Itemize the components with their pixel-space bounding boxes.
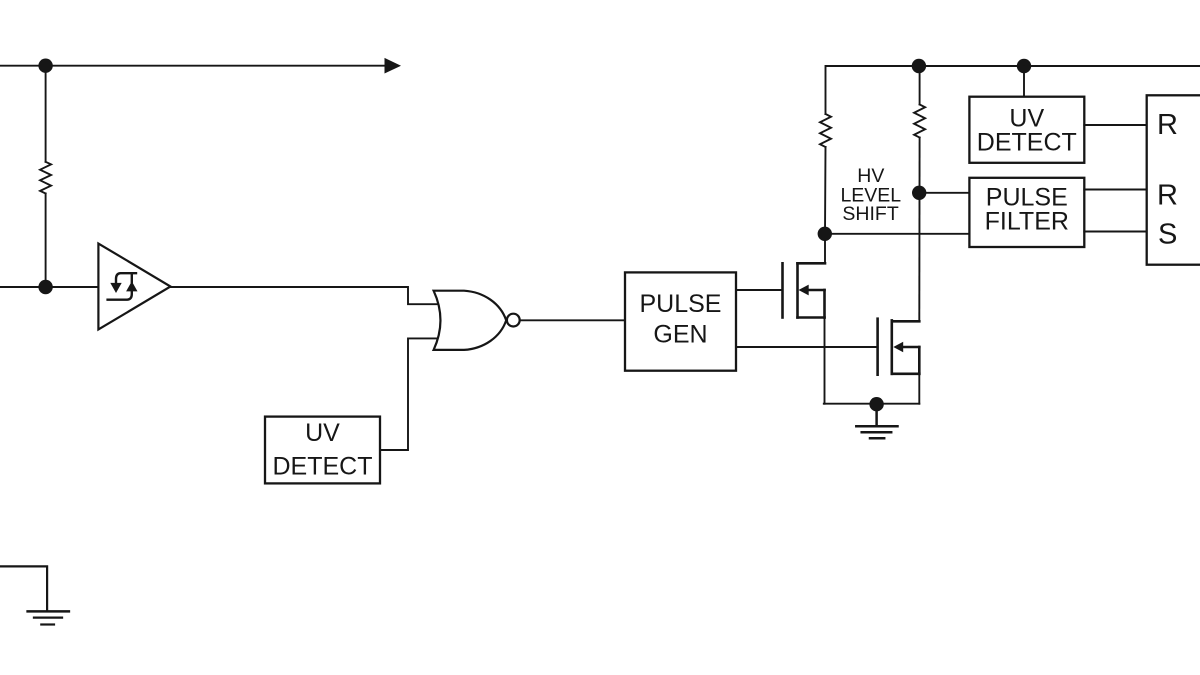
svg-text:UV: UV (305, 419, 340, 447)
svg-text:S: S (1158, 218, 1177, 250)
NOR gate U2 (434, 291, 520, 350)
text HV LEVEL SHIFT (840, 165, 901, 225)
node input junction (38, 280, 52, 294)
svg-text:R: R (1157, 180, 1178, 212)
wire UV detect to latch R (1084, 124, 1146, 126)
ground COM (856, 404, 897, 438)
wire pulse filter to latch S (1084, 231, 1146, 233)
latch box RRS (1147, 95, 1200, 264)
transistor M1 (783, 263, 826, 317)
UV detect box (high side) (969, 97, 1084, 163)
wire rail down to UV detect box (1023, 66, 1025, 97)
node level shift junction (912, 186, 926, 200)
svg-text:PULSE: PULSE (640, 290, 722, 318)
svg-text:R: R (1157, 109, 1178, 141)
UV detect box (input side) (265, 417, 380, 484)
transistor M2 (878, 319, 920, 375)
wire R line to pulse filter (919, 192, 969, 194)
resistor R1 (40, 162, 51, 194)
svg-text:FILTER: FILTER (985, 207, 1069, 235)
PULSE FILTER box (969, 178, 1084, 247)
node COM junction (869, 397, 883, 411)
wire resistor to input junction (45, 194, 47, 288)
schmitt buffer U1 (98, 244, 170, 330)
wire top-left horizontal with arrow (0, 65, 386, 67)
hysteresis symbol (116, 273, 136, 283)
wire pulse filter to latch R (1084, 189, 1146, 191)
wire NOR bottom input down to UV detect (380, 338, 443, 450)
svg-text:GEN: GEN (653, 320, 707, 348)
wire S line to pulse filter (825, 233, 970, 235)
wire COM rail (824, 403, 920, 405)
wire pulse gen to M2 gate (736, 346, 878, 348)
node rail R3 junction (912, 59, 926, 73)
wire M2 source down to COM rail (918, 374, 920, 404)
wire from top junction down to resistor (45, 66, 47, 162)
wire R2 to node (824, 147, 827, 234)
wire M1 drain up to node (824, 234, 826, 263)
resistor R3 (914, 105, 925, 138)
svg-text:HV: HV (857, 165, 884, 187)
wire top rail (826, 66, 1200, 114)
wire rail to R3 (919, 66, 921, 105)
wire NOR output to pulse gen (520, 319, 625, 321)
svg-text:DETECT: DETECT (273, 453, 373, 481)
resistor R2 (820, 114, 831, 147)
node top-left junction (38, 58, 52, 72)
wire buffer output to NOR top input (171, 287, 444, 304)
svg-text:DETECT: DETECT (977, 129, 1077, 157)
wire pulse gen to M1 gate (736, 289, 783, 291)
wire input to schmitt buffer (0, 286, 98, 288)
wire R3 down to M2 drain (918, 138, 920, 322)
arrowhead (385, 58, 402, 74)
svg-text:SHIFT: SHIFT (842, 203, 898, 225)
node rail UV junction (1017, 59, 1031, 73)
PULSE GEN box (625, 272, 736, 370)
node M1 drain junction (818, 227, 832, 241)
ground left (COM pin) (0, 566, 69, 624)
wire M1 source down to COM rail (824, 318, 826, 404)
